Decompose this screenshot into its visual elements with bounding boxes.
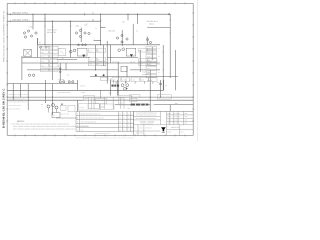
svg-text:XXXX: XXXX (147, 56, 151, 58)
svg-text:XXXX XXX: XXXX XXX (81, 126, 88, 128)
svg-text:XX: XX (123, 118, 125, 120)
svg-text:XX: XX (128, 118, 130, 120)
svg-text:X/X: X/X (119, 122, 121, 124)
svg-text:XXX: XXX (184, 119, 187, 121)
svg-text:XX-X: XX-X (139, 50, 142, 52)
svg-text:XXXXX + XXXXX: XXXXX + XXXXX (140, 120, 155, 123)
svg-text:X: X (131, 118, 132, 120)
svg-text:XXXX: XXXX (167, 123, 171, 125)
svg-text:XXXX: XXXX (119, 98, 123, 100)
svg-text:XXXX: XXXX (147, 52, 151, 54)
svg-text:XXX: XXX (41, 52, 44, 54)
svg-text:XXX: XXX (184, 113, 187, 115)
svg-text:XX: XX (123, 122, 125, 124)
svg-text:XX X: XX X (180, 132, 183, 134)
svg-text:XXXX XXX XXXXX XXX: XXXX XXX XXXXX XXX (81, 122, 97, 124)
svg-text:XX-X: XX-X (89, 59, 92, 61)
svg-text:XX-X: XX-X (98, 59, 101, 61)
svg-text:X: X (131, 114, 132, 116)
svg-text:FEEDER NO 2: FEEDER NO 2 (147, 20, 158, 23)
svg-text:XXXX: XXXX (158, 97, 162, 99)
svg-text:XX-X: XX-X (98, 50, 101, 52)
svg-text:L1: L1 (92, 12, 94, 15)
svg-text:XXXX: XXXX (147, 68, 151, 70)
svg-text:XXXX: XXXX (167, 132, 171, 134)
svg-text:X-XX-XX: X-XX-XX (174, 119, 180, 121)
svg-text:XXX: XXX (41, 48, 44, 50)
svg-text:X/X: X/X (119, 126, 121, 128)
svg-text:XXXXX XXX XXXX XXXX XXXX XX: XXXXX XXX XXXX XXXX XXXX XX (81, 118, 104, 120)
svg-text:XXXX: XXXX (147, 64, 151, 66)
svg-text:XXX: XXX (184, 123, 187, 125)
svg-text:XX: XX (128, 130, 130, 132)
svg-text:X: X (131, 122, 132, 124)
svg-text:XXX: XXX (139, 64, 142, 66)
svg-text:XXXX: XXXX (167, 113, 171, 115)
svg-text:XXXX: XXXX (84, 98, 88, 100)
svg-text:XX-X: XX-X (89, 50, 92, 52)
svg-text:XX: XX (50, 61, 52, 63)
svg-text:XXXX: XXXX (147, 48, 151, 50)
svg-text:XXX: XXX (41, 57, 44, 59)
svg-text:X/X: X/X (119, 114, 121, 116)
svg-text:XX: XX (67, 74, 69, 76)
svg-text:XX: XX (41, 104, 43, 106)
svg-text:XXX: XXX (150, 79, 153, 81)
svg-text:T1: T1 (136, 29, 138, 32)
svg-text:RELAY TD1: RELAY TD1 (47, 31, 56, 34)
svg-text:XX: XX (158, 72, 160, 74)
svg-text:PRINTED ON NO. 1000H CLEARPRIN: PRINTED ON NO. 1000H CLEARPRINT PAPER CO (2, 10, 5, 62)
svg-text:XX: XX (158, 48, 160, 50)
svg-text:XX: XX (128, 126, 130, 128)
svg-text:X: X (131, 126, 132, 128)
svg-text:XXX: XXX (132, 79, 135, 81)
svg-text:CR2: CR2 (76, 24, 80, 27)
svg-text:XXXX: XXXX (167, 116, 171, 118)
svg-text:XX: XX (50, 57, 52, 59)
svg-text:XXX X: XXX X (81, 92, 85, 94)
svg-text:XX: XX (50, 65, 52, 67)
svg-text:XX: XX (130, 100, 132, 102)
svg-text:XX: XX (39, 42, 41, 44)
svg-text:XXX: XXX (122, 79, 125, 81)
svg-text:XXX: XXX (41, 65, 44, 67)
svg-text:XX: XX (53, 115, 55, 117)
svg-text:XXX: XXX (113, 79, 116, 81)
svg-text:XXX: XXX (81, 130, 84, 132)
svg-text:XX: XX (123, 130, 125, 132)
svg-text:XX-X: XX-X (89, 64, 92, 66)
svg-text:NOTES:: NOTES: (17, 120, 25, 123)
svg-text:XXX XXXXX XXX XX XXX XXXX: XXX XXXXX XXX XX XXX XXXX (136, 114, 157, 116)
svg-text:X/X: X/X (119, 130, 121, 132)
svg-text:XXXX: XXXX (119, 103, 123, 105)
svg-text:MCC-1: MCC-1 (149, 23, 154, 26)
svg-text:THIS DOCUMENT CONTAINS XX: THIS DOCUMENT CONTAINS XX (136, 113, 157, 115)
svg-text:XXX: XXX (41, 70, 44, 72)
svg-text:XX: XX (128, 114, 130, 116)
svg-text:XXX: XXX (130, 96, 133, 98)
svg-text:X: X (131, 130, 132, 132)
svg-text:XXX XXXXX XXX XXXX XXX XX: XXX XXXXX XXX XXXX XXX XX (136, 118, 157, 120)
svg-text:XX: XX (50, 70, 52, 72)
svg-text:XX: XX (50, 52, 52, 54)
svg-text:XX: XX (95, 28, 97, 30)
svg-text:120V BUS: 120V BUS (12, 19, 22, 22)
svg-text:CR3 AUX: CR3 AUX (108, 29, 116, 32)
svg-text:480V BUS: 480V BUS (12, 12, 22, 15)
svg-text:XXXX: XXXX (167, 119, 171, 121)
svg-text:X-XX-XX: X-XX-XX (174, 123, 180, 125)
svg-text:X/X: X/X (119, 118, 121, 120)
svg-text:XXX: XXX (184, 116, 187, 118)
svg-text:OL: OL (85, 24, 87, 27)
svg-text:D-80246-EL-105 SH 2 REV C: D-80246-EL-105 SH 2 REV C (3, 89, 6, 128)
svg-text:1PH-A: 1PH-A (22, 12, 28, 15)
svg-text:XXXXX XXX XXXX XXXX XXX: XXXXX XXX XXXX XXXX XXX (81, 114, 101, 116)
svg-text:X-XX-XX: X-XX-XX (174, 113, 180, 115)
svg-text:XXXX XXXX XXXX XXX: XXXX XXXX XXXX XXX (95, 133, 110, 135)
svg-text:XX: XX (128, 122, 130, 124)
svg-text:XX: XX (158, 64, 160, 66)
svg-text:XX: XX (158, 56, 160, 58)
svg-text:XX: XX (50, 48, 52, 50)
svg-text:L2: L2 (92, 19, 94, 22)
svg-text:CR1: CR1 (30, 26, 34, 29)
svg-text:XXXX: XXXX (147, 60, 151, 62)
svg-text:XX: XX (123, 114, 125, 116)
svg-text:XXX: XXX (41, 61, 44, 63)
svg-text:X-XX-XX: X-XX-XX (174, 116, 180, 118)
svg-text:XXX: XXX (127, 108, 130, 110)
svg-text:1PH-B: 1PH-B (22, 19, 28, 22)
svg-text:XX: XX (129, 80, 131, 82)
svg-text:XX: XX (123, 126, 125, 128)
svg-text:XX: XX (62, 58, 64, 60)
svg-text:XXX: XXX (141, 79, 144, 81)
svg-text:XXXXXXXX XXXX XXXX XXXXXXXXX X: XXXXXXXX XXXX XXXX XXXXXXXXX XXXX XXXXX … (76, 137, 135, 140)
svg-text:XXX: XXX (109, 93, 112, 95)
